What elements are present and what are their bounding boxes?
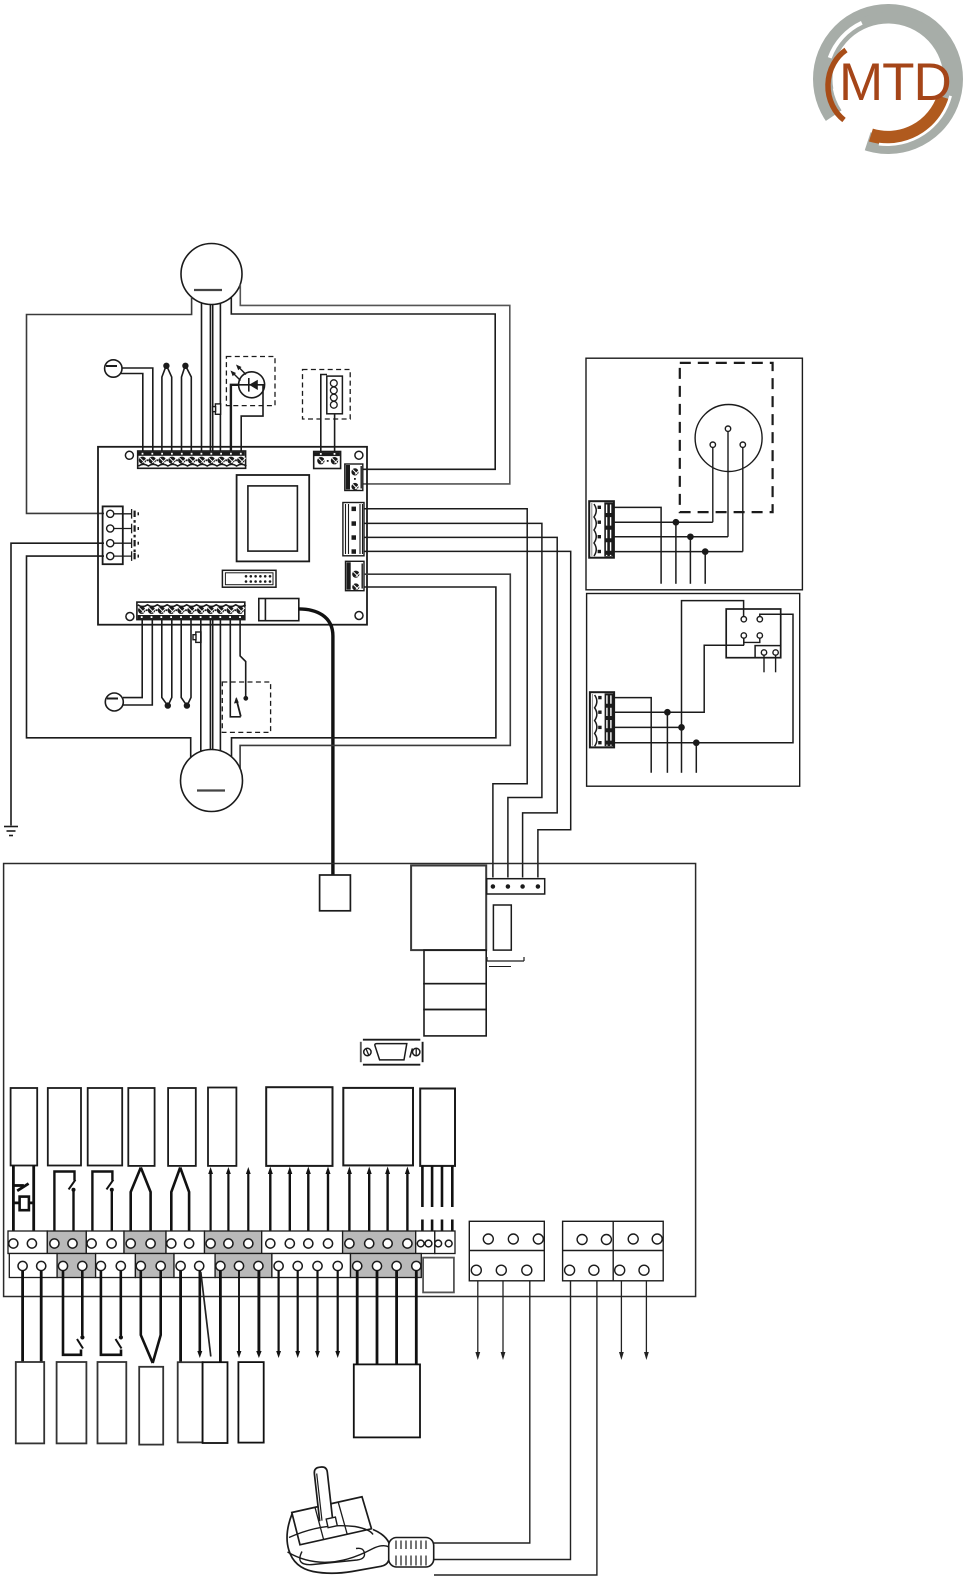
wire M1 right outer to connector J2 pin2 [240,285,510,484]
wire C1 pin3 [614,536,728,538]
wire J3 pin1 [364,509,527,878]
switch S2 contact dot [119,1335,123,1339]
wire M2 to terminal x7 [200,620,202,752]
wire rail to battery box a [356,1271,359,1365]
motor M1 (top fan motor) [181,244,242,305]
upper rail terminals [9,1239,452,1248]
load L6 [203,1362,228,1443]
wire C2 pin3 to relay TL [614,601,744,728]
connector J1 (left, 4-pin) [103,506,139,564]
arrow wire b [297,1271,299,1353]
stub sub pin L [763,655,765,672]
mounting hole bottom-right [355,612,363,620]
wire with arrow (thick) at L7 [257,1271,260,1353]
plug body divider 1 [315,1507,324,1539]
wire to load L5 [179,1271,182,1362]
K8 wires with arrows [268,1167,331,1239]
connector C1 (4-pin plug) [589,501,614,558]
G2 stub arrow b [645,1281,647,1354]
wire x10 to switch lever [230,620,241,717]
switch S1 fixed side [63,1271,81,1355]
logo white separator arc [879,96,951,145]
wire M3 pin left down [712,447,714,522]
relay bank component K5 [128,1088,154,1166]
safety switch lever [236,699,241,717]
wire C2 pin1 [614,698,651,773]
lower rail terminals [18,1261,421,1270]
load L1 [16,1362,44,1443]
fuse label mark [487,957,524,961]
relay K1 pin MR [757,633,762,638]
relay K1 sub pin L [761,650,766,655]
junction dot C1 pin3 [688,534,693,539]
K4 switch symbol [92,1172,113,1239]
wire coil right to block X2 [334,414,336,452]
switch S1 moving wire [81,1271,84,1336]
mounting hole top-right [355,451,363,459]
arrow wire d [337,1271,339,1353]
wire J4 pin2 loop to motor M2 right inner [232,587,496,757]
wire J3 pin4 [364,551,571,877]
stub C1 pin4 [704,552,706,584]
K4 moving contact dot [110,1188,114,1192]
X3 inter-screw dots [146,609,236,611]
relay module stack box3 [424,1010,486,1036]
load L3 [98,1362,127,1443]
thick mains cable from PCB to power box [299,609,333,876]
LED D1 diode symbol [239,378,265,392]
K3 moving contact dot [72,1188,76,1192]
relay module stack box1 [424,950,486,984]
wire B1 lower to terminal t1 [121,374,143,452]
screws X3 [138,607,244,614]
load L4 [139,1367,163,1445]
LCD display module [237,475,310,561]
connector J4 (right edge, 2-pin) [346,561,365,590]
X1 scalloped lower edge [139,464,247,466]
relay internal bridge [744,638,760,642]
switch S2 lever [116,1339,122,1349]
DB9 screw right [413,1048,420,1055]
logo orange bottom arc [871,97,944,137]
sensor B2 dash [107,698,118,700]
plug lower shell [287,1514,389,1574]
K4 lever [107,1180,114,1190]
safety switch lever tip [234,697,239,704]
motor M3 circle [695,405,762,472]
relay K1 pin TR [757,617,762,622]
relay feeder stub ML [743,638,745,645]
screws X1 [139,457,245,464]
lower terminal rail blocks [9,1254,421,1278]
plug body divider 2 [338,1502,347,1534]
terminal group G2 [563,1221,664,1281]
G1 stub arrow a [477,1281,479,1354]
wire rail to battery box c [395,1271,398,1365]
arrow wire a [278,1271,280,1353]
mounting hole top-left [125,451,133,459]
wire with arrow (thin) at L7 [238,1271,240,1353]
thermistor RT3 bead [165,703,170,708]
K10 broken wires [422,1166,452,1236]
crimp tab on wire t9 [213,404,221,414]
wire rail to battery box b [376,1271,379,1365]
connector C2 (4-pin plug) [590,692,614,747]
plug shell curve top [289,1526,373,1538]
thermistor RT4 bead [185,703,190,708]
wires J3 to power box connector C3 [364,509,571,878]
wire J4 pin1 loop to motor M2 right outer [240,574,510,768]
connector J2 (right edge, 2-pin) [345,464,363,491]
plug pin collar [326,1517,337,1528]
sensor B1 (temperature probe) [105,360,122,377]
wire C2 pin2 [614,645,744,712]
stub C1 pin2 [675,522,677,584]
relay bank component K6 [168,1088,196,1166]
relay bank component K9 [343,1088,413,1166]
motor M1 dash [194,289,222,291]
ignition coil windings [330,380,337,408]
end-rail white box [423,1258,454,1293]
lone wire with arrow [247,1171,249,1238]
K5 chevron wires [131,1168,151,1239]
stub C2 pin3 [681,727,683,772]
wire J3 pin2 [364,523,542,877]
relay K1 body [726,609,781,658]
box E2 outline [587,594,800,787]
sensor B2 (temperature probe) [105,693,123,711]
plug strain relief boot [389,1538,434,1568]
wire coil left to block X2 [321,375,327,452]
junction dot C1 pin4 [703,549,708,554]
wire with arrow at L5/L6 [199,1271,202,1353]
thermistor RT4 legs [181,620,191,705]
switch S1 contact dot [80,1335,84,1339]
stub C1 pin3 [689,537,691,584]
wire K2 left leg [12,1166,15,1241]
wire M1 to terminal t8 (pair a) [209,304,211,451]
K4 fixed side wire [92,1172,112,1239]
relay bank component K10 [420,1089,455,1166]
K3 fixed side wire [54,1172,74,1239]
load L2 [57,1362,87,1443]
K7 wire b with arrow [227,1171,229,1238]
wire LED right loop to terminal t11 [241,385,264,451]
motor M3 pin left [710,442,715,447]
svg-text:MTD: MTD [839,53,951,112]
terminal block X2 (coil, 2 poles) [314,452,341,469]
relay bank component K7 [208,1088,236,1166]
crimp tab on wire x7 [193,632,201,642]
terminal block X1 (top, 11 poles) [138,451,247,468]
upper terminal rail blocks [8,1231,455,1254]
switch S1 lever [77,1339,83,1349]
relay bank component K8 [266,1087,332,1166]
switch S2 moving wire [120,1271,123,1336]
relay bank component K4 [88,1088,123,1166]
wire M3 pin right down [742,447,744,551]
wire J3 pin3 [364,537,557,877]
stub C2 pin2 [666,712,668,773]
thermistor RT2 legs [182,366,192,451]
mounting hole bottom-left [126,613,134,621]
sensor B1 dash [106,365,117,367]
logo gray top band [827,18,948,90]
K7 wire a with arrow [208,1167,251,1238]
wire x11 to switch contact [240,620,246,697]
wire C2 pin4 to relay TR [614,614,793,742]
motor M3 pin mid [725,426,730,431]
terminal block X3 (bottom, 11 poles) [137,602,246,620]
box E1 outline [586,358,802,590]
ignition coil body [327,376,343,414]
plug body [292,1497,372,1545]
J1 contact pins [114,509,139,561]
arrow wire c [316,1271,318,1353]
G1 wire to mains cable (top) [434,1281,530,1543]
wire LED left to terminal t10 [231,385,239,451]
K4 moving side wire [111,1190,113,1238]
relay bank component K2 [11,1088,38,1166]
connector J3 (right edge, 4-pin) [343,503,364,556]
G2 stub arrow a [620,1281,622,1354]
wire B2 upper to terminal x1 [123,620,142,698]
programming header (2x6) [222,570,276,587]
wire M3 pin mid down [727,431,729,536]
switch S2 fixed side [101,1271,121,1355]
wire B2 lower to terminal x2 [123,620,152,705]
interlock plug through-line [13,1202,33,1205]
interlock plug box [20,1197,29,1211]
load L5 [178,1362,203,1442]
relay K1 pin TL [741,617,746,622]
plug cable guard swoosh [300,1548,365,1564]
wire M2 to terminal x8 (pair b) [212,620,214,750]
main switch blade [13,1184,24,1187]
wire M2 left loop to connector J1 pin4 [27,556,191,757]
wire M1 to terminal t9 [219,303,221,451]
G1 stub arrow b [502,1281,504,1354]
K9 wires with arrows [347,1167,410,1239]
terminal group G1 [469,1221,544,1281]
G2 wire to mains cable (mid) [434,1281,571,1560]
junction dot C1 pin2 [673,520,678,525]
thermistor RT1 bead [164,363,169,368]
relay K1 pin ML [741,633,746,638]
relay module stack box2 [424,984,486,1010]
DB9 shell [375,1044,407,1060]
X1 inter-screw dots [147,459,237,461]
wire M2 to terminal x8 (pair a) [209,620,211,750]
safety switch contact dot [244,697,247,700]
motor M3 dashed enclosure [680,363,773,512]
chevron wires to load L4 [141,1271,161,1363]
thermistor RT2 bead [183,363,188,368]
boot ribs upper [396,1541,426,1550]
fuse holder [493,905,511,950]
wire J1 pin3 to ground [11,543,104,825]
wire M1 right to connector J2 pin1 [231,297,495,469]
control box outline [4,864,696,1297]
logo orange left paren [828,50,846,120]
ignition coil dashed enclosure [303,370,351,420]
safety switch dashed enclosure [222,682,270,732]
motor M2 (bottom fan motor) [181,750,243,812]
junction dot C2 pin2 [665,710,670,715]
logo gray ring [823,14,954,145]
K6 chevron wires [171,1168,189,1239]
X3 scalloped upper edge [138,605,246,607]
wire to load L6 [219,1271,222,1362]
stub C2 pin4 [695,743,697,773]
thermistor RT3 legs [162,620,172,705]
wire M2 to terminal x9 [219,620,221,751]
wire B1 upper to terminal t2 [122,368,153,451]
wire M1 left to connector J1 pin1 [27,297,192,513]
wire K2 right leg [32,1166,35,1241]
mains entry module [320,875,351,911]
LED D1 circle [239,372,265,398]
wire rail1 to load L1 [21,1271,24,1362]
diagonal wire into load L6 [201,1272,211,1357]
wire rail2 to load L1 [40,1271,43,1362]
LED D1 emission arrows [231,365,247,381]
load L7 [238,1362,263,1443]
K3 switch symbol [54,1172,75,1239]
junction dot C2 pin3 [679,725,684,730]
logo inner white crescent [830,23,862,58]
PCB board outline [98,447,367,625]
aux module (bottom right of PCB) [259,599,299,621]
boot ribs lower [396,1556,426,1566]
wire C1 pin1 [614,507,661,583]
plug earth pin [314,1467,332,1521]
stub sub pin R [775,655,777,672]
DB9 service connector [361,1040,423,1065]
LED D1 dashed enclosure [226,357,275,406]
junction dot C2 pin4 [694,740,699,745]
K2 wires + main switch symbol [13,1166,33,1241]
relay bank component K3 [48,1088,81,1166]
thermistor RT1 legs [162,366,172,451]
relay K1 sub-block [755,646,781,658]
transformer T1 [411,866,486,951]
motor M3 pin right [740,442,745,447]
battery box L8 [354,1364,420,1437]
wire rail to battery box d [415,1271,418,1365]
ground symbol [4,827,18,836]
relay K1 sub pin R [773,650,778,655]
wire M1 to terminal t8 (pair b) [212,304,214,451]
connector C3 (4-pin socket) [487,879,545,894]
mains plug [287,1467,434,1573]
DB9 screw left [364,1048,371,1055]
logo white gap bottom-left [805,79,888,174]
MTD logo [805,14,954,175]
G2 wire to mains cable (bottom) [434,1281,597,1575]
motor M2 dash [197,789,225,791]
wire M1 to terminal t7 [201,303,203,451]
plug shell curve mid [288,1546,390,1563]
wire C1 pin4 [614,551,743,553]
K3 lever [69,1180,76,1190]
wire C1 pin2 [614,521,713,523]
K3 moving side wire [72,1190,74,1238]
